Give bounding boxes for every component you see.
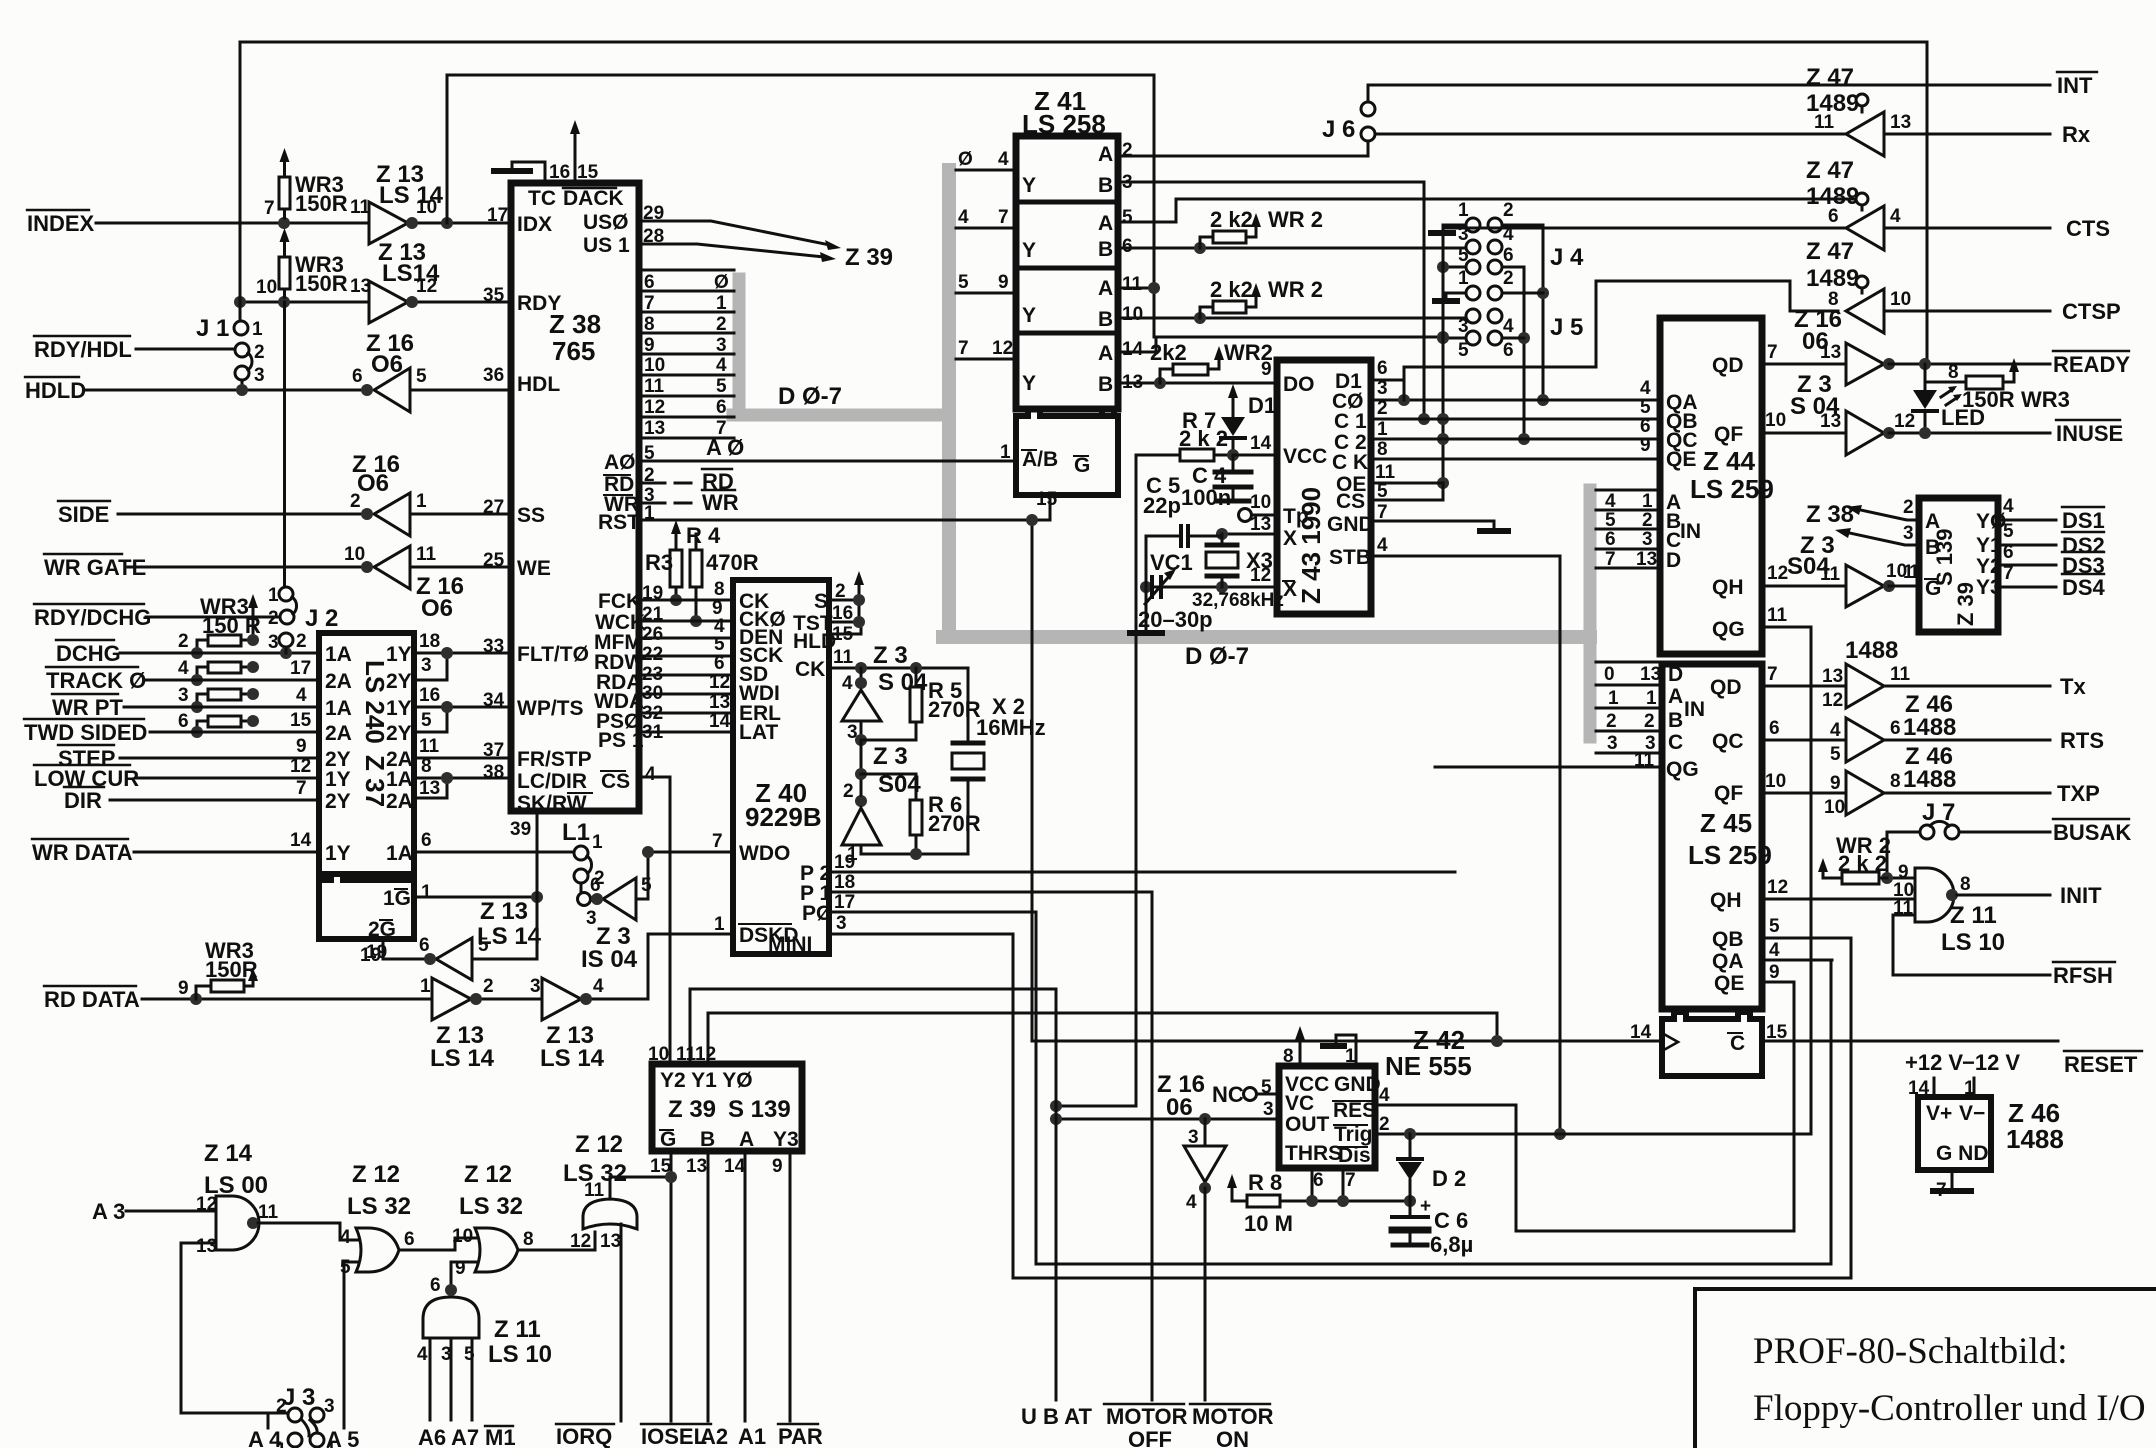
Z44 input ladder [1596,490,1660,568]
IC Z45 LS259 body [1662,664,1762,1009]
svg-text:RST: RST [598,511,640,534]
buffer Z3 S04 (DS enable) [1787,532,1835,580]
svg-text:Z 14: Z 14 [204,1140,253,1167]
svg-text:GND: GND [1327,513,1374,536]
svg-text:OUT: OUT [1285,1113,1330,1136]
jumper J3 circles [282,1384,315,1411]
svg-text:B: B [700,1128,715,1151]
label Z39 (US destination) [845,244,893,271]
svg-text:A: A [1668,685,1683,708]
ground at J5-1 [1446,293,1466,298]
svg-text:A 3: A 3 [92,1199,125,1224]
svg-text:1: 1 [1377,419,1388,440]
svg-text:IOSEL: IOSEL [641,1424,707,1448]
svg-text:Ø: Ø [714,272,729,293]
svg-text:12: 12 [1767,563,1788,584]
svg-text:15: 15 [290,710,312,731]
svg-text:Floppy-Controller und I/O: Floppy-Controller und I/O [1753,1388,2146,1429]
svg-text:765: 765 [552,336,595,366]
svg-text:1: 1 [1458,200,1469,221]
svg-text:LC/DIR: LC/DIR [517,770,587,793]
data ladder rows at Z38 [639,270,734,438]
buffer Z47 1489 (Rx) [1806,64,1859,117]
wire J5-6 to J4-6 rail [1502,337,1524,340]
wire gate1 out to gate2 [399,1238,477,1250]
trimmer VC1 [1152,577,1161,597]
net label TWD SIDED [24,711,189,745]
IC Z37 LS240 body [319,633,414,874]
labels Z3 S04 (READY/INUSE pair) [1790,371,1840,420]
svg-text:4: 4 [593,976,604,997]
net label TRACK 0 [46,658,189,693]
svg-text:7: 7 [264,198,275,219]
svg-text:10: 10 [1824,797,1845,818]
ground at J4-1 [1443,225,1466,230]
svg-text:2: 2 [1642,510,1653,531]
svg-text:LS 14: LS 14 [379,182,444,209]
wire Z45 QH to NAND pin 10 [1762,898,1915,901]
diode D2 [1409,1134,1412,1201]
svg-text:GND: GND [1334,1073,1381,1096]
svg-text:3: 3 [1458,316,1469,337]
IC Z45 pin numbers [1604,664,1788,1043]
wire RDY/HDL to J1-2 [136,348,235,351]
svg-text:O6: O6 [357,470,389,497]
svg-text:Z 11: Z 11 [1950,902,1997,929]
svg-text:PROF-80-Schaltbild:: PROF-80-Schaltbild: [1753,1331,2068,1372]
svg-text:6: 6 [419,935,430,956]
svg-text:4: 4 [842,673,853,694]
wire C1/QB row [1371,418,1660,421]
title block border [1695,1289,2156,1448]
svg-text:J 5: J 5 [1550,314,1583,341]
wire A3 to Z14 [126,1210,216,1213]
svg-text:4: 4 [1640,378,1651,399]
svg-text:4: 4 [1605,491,1616,512]
net label A1 [738,1424,766,1448]
IC Z44 pin numbers [1640,342,1788,626]
svg-text:3: 3 [1903,523,1914,544]
wire A2 up to Z39 B [707,1151,710,1421]
svg-text:NE 555: NE 555 [1385,1051,1472,1081]
svg-text:WR 2: WR 2 [1268,277,1323,302]
svg-text:4: 4 [296,685,307,706]
svg-text:2Y: 2Y [386,722,412,745]
svg-text:US 1: US 1 [583,234,630,257]
svg-text:1: 1 [1646,688,1657,709]
svg-text:11: 11 [419,736,440,757]
svg-text:QB: QB [1712,928,1744,951]
capacitor C5 22p [1146,534,1222,633]
svg-text:13: 13 [1822,666,1843,687]
svg-text:X3: X3 [1246,548,1273,573]
svg-text:14: 14 [290,830,312,851]
svg-text:13: 13 [644,418,665,439]
wire LOW CUR to Z37 [136,777,319,780]
wire INT [1368,85,2050,102]
svg-text:2A: 2A [325,722,352,745]
svg-text:8: 8 [1948,362,1959,383]
svg-text:Z 38: Z 38 [1806,501,1854,528]
svg-text:6: 6 [1605,529,1616,550]
svg-text:1: 1 [1964,1078,1975,1099]
Z42 VCC pin 8 arrow [1299,1040,1302,1066]
buffer Z46 1488 (TXP) [1846,771,1884,815]
wire PAR up to Z39 Y3 [789,1151,792,1421]
svg-text:10: 10 [1765,771,1786,792]
wire UBAT rail [1055,989,1058,1400]
wire Z37 2A to Z38 FR/STP [414,757,511,760]
svg-text:CTS: CTS [2066,216,2110,241]
wire gate3 out to Z39 G [610,1177,671,1199]
svg-text:11: 11 [676,1044,697,1065]
resistor WR3 150R (RDY pull-up) [279,257,290,289]
svg-text:4: 4 [716,355,727,376]
svg-text:4: 4 [1503,316,1514,337]
wire CTSP buffer to label [1884,310,2050,313]
net label CTSP [2062,299,2121,324]
wire top rail down to J1 [239,42,242,321]
wire A0 to Z41 A/B [639,460,1016,463]
wire inverter out up to WR DATA and Z40 WDO [636,852,733,899]
svg-text:RFSH: RFSH [2053,963,2113,988]
svg-text:RESET: RESET [2064,1052,2138,1077]
svg-text:6: 6 [590,875,601,896]
IC Z37 pin numbers [290,631,440,963]
IC Z37 enable sub-box [319,874,414,939]
IC Z43 pin numbers [1250,358,1396,586]
svg-text:5: 5 [958,272,969,293]
wire from top line B down to IDX [446,75,449,223]
svg-text:R3: R3 [645,550,673,575]
wire osc bottom run [861,853,968,856]
svg-text:A 4: A 4 [248,1427,282,1448]
buffer Z13 LS14 (RD DATA 2) [542,978,581,1020]
net label DCHG [56,631,189,666]
svg-text:WR2: WR2 [1224,340,1273,365]
IC Z37 label (rotated) [360,660,390,807]
svg-text:270R: 270R [928,697,981,722]
svg-text:7: 7 [1345,1170,1356,1191]
svg-text:38: 38 [483,762,504,783]
wire RDA-SD [639,674,733,677]
wire RST long run to Z45 clock [639,520,1662,1041]
svg-text:8: 8 [1283,1046,1294,1067]
net label MOTOR ON [1192,1404,1274,1448]
svg-text:FCK: FCK [598,590,641,613]
net label RD DATA [44,978,189,1012]
svg-text:7: 7 [958,338,969,359]
svg-text:A1: A1 [738,1424,766,1448]
IC Z39 right pin numbers [1903,496,2014,584]
wire RESET from Z45 C [1764,1040,2058,1043]
svg-text:39: 39 [510,819,531,840]
resistor 2k2 WR2 (DO pull-up) [1173,364,1208,375]
svg-text:A: A [1925,510,1940,533]
wire Z44 QH to DS enable [1762,585,1919,588]
IC Z44 label [1690,446,1774,504]
svg-text:11: 11 [1890,664,1911,685]
label RD (overlined) [702,469,734,494]
svg-text:4: 4 [1890,206,1901,227]
svg-text:A: A [1098,143,1113,166]
svg-text:Z 47: Z 47 [1806,64,1854,91]
resistor 2k2 WR2 (B10 pull-up) [1213,301,1246,313]
net label IORQ [556,1424,612,1448]
svg-text:C: C [1730,1032,1745,1055]
svg-text:2 k2: 2 k2 [1210,277,1253,302]
svg-text:1: 1 [1345,1046,1356,1067]
svg-text:INDEX: INDEX [27,211,95,236]
svg-text:TRACK Ø: TRACK Ø [46,668,146,693]
svg-text:C 1: C 1 [1334,410,1367,433]
svg-text:1: 1 [420,976,431,997]
svg-text:12: 12 [992,338,1013,359]
junction Y0 line into RST/C rail [1496,1013,1499,1041]
svg-text:10: 10 [1890,289,1911,310]
svg-text:Y: Y [1022,372,1036,395]
svg-text:16MHz: 16MHz [976,715,1046,740]
svg-text:READY: READY [2053,352,2130,377]
svg-text:150R: 150R [295,191,348,216]
wire Z41 B13 to Z43 DO [1118,382,1277,385]
inverter Z13 LS14 (2G) [436,938,472,980]
svg-text:2: 2 [1379,1114,1390,1135]
data bus D0-7 gray vertical main [942,170,956,637]
svg-text:Z 39: Z 39 [668,1096,716,1123]
wire INIT out [1957,894,2050,897]
svg-text:1: 1 [268,585,279,606]
IC Z39 right pin names [1925,510,2006,600]
wire Z41 A2 to J6 [1118,141,1368,156]
IC Z39 bottom S139 body [652,1064,802,1151]
wire RD stub [639,482,691,485]
net label -12V [1962,1050,2020,1075]
net label M1 [485,1425,516,1448]
wire INDEX to Z38 IDX [96,222,511,225]
svg-text:DCHG: DCHG [56,641,121,666]
wire osc node 2 to R6 [861,773,916,776]
svg-text:5: 5 [421,710,432,731]
svg-text:U B AT: U B AT [1021,1404,1092,1429]
svg-text:470R: 470R [706,550,759,575]
svg-text:C: C [1668,731,1683,754]
svg-text:6: 6 [1503,245,1514,266]
wire PS1-LAT [639,731,733,734]
jumper J6 pin2 [1361,127,1375,141]
svg-text:13: 13 [1820,411,1841,432]
svg-text:3: 3 [254,365,265,386]
wire RDY row [240,301,511,304]
svg-text:SS: SS [517,504,545,527]
resistor R6 270R [910,800,922,835]
svg-text:S 139: S 139 [728,1096,791,1123]
wire CTS rail to buffer and label [1443,227,2050,230]
net label WR DATA [32,840,133,865]
wire Z43 D1 elbow [1371,380,1404,400]
jumper J2 pin1 [279,587,293,601]
net label RESET [2064,1052,2138,1077]
svg-text:SK/RW: SK/RW [517,792,587,815]
svg-text:4: 4 [998,149,1009,170]
net label CTS [2066,216,2110,241]
svg-text:14: 14 [1250,433,1272,454]
svg-text:Z 39: Z 39 [1953,582,1978,626]
wire Z44 QG chain down to Trig [1762,627,1811,1134]
svg-text:13: 13 [686,1156,707,1177]
svg-text:20–30p: 20–30p [1138,607,1213,632]
IC Z45 label [1688,808,1772,870]
svg-text:1A: 1A [325,643,352,666]
buffer Z46 1488 (Tx) [1845,637,1898,664]
junction RDY at J1 vertical [234,296,246,308]
svg-text:12: 12 [1894,411,1915,432]
svg-text:LS 10: LS 10 [1941,929,2005,956]
wire CK/QE row [1371,458,1660,461]
wire Z37 out to L1 [414,851,574,854]
svg-text:Y: Y [1022,304,1036,327]
wire J1-3 to HDLD [241,380,244,390]
svg-text:B: B [1925,536,1940,559]
wire bottom bus row QB [1013,938,1851,1278]
capacitor C4 100n [1232,455,1235,500]
svg-text:A: A [1098,277,1113,300]
inverter Z16 06 (HDLD) [374,368,410,412]
svg-text:3: 3 [1642,529,1653,550]
wire Z43 OE stub [1371,482,1443,485]
svg-text:26: 26 [642,624,663,645]
svg-text:13: 13 [196,1236,217,1257]
svg-text:1: 1 [716,293,727,314]
svg-text:L1: L1 [562,819,590,846]
svg-text:QA: QA [1712,950,1744,973]
svg-text:Tx: Tx [2060,674,2086,699]
svg-text:9: 9 [772,1156,783,1177]
IC Z38 765 FDC body [511,183,639,811]
svg-text:Z 45: Z 45 [1700,808,1752,838]
svg-text:8: 8 [1960,874,1971,895]
svg-text:PS 1: PS 1 [598,729,644,752]
svg-text:8: 8 [714,579,725,600]
svg-text:B: B [1098,174,1113,197]
IC Z38 pin names left column [517,213,592,815]
svg-text:6: 6 [1769,718,1780,739]
svg-text:6: 6 [644,272,655,293]
wires DS1-DS4 [1998,520,2056,587]
IC Z45 clock wedge [1662,1033,1678,1051]
wires +12/-12 into Z46 [1934,1078,1974,1097]
svg-text:10 M: 10 M [1244,1211,1293,1236]
svg-text:1: 1 [416,491,427,512]
inverter Z16 06 (WR GATE) [374,546,410,589]
svg-text:NC: NC [1212,1082,1244,1107]
svg-text:B: B [1098,308,1113,331]
svg-text:USØ: USØ [583,211,629,234]
net label IOSEL [641,1424,707,1448]
svg-text:10: 10 [344,544,365,565]
net label TXP [2057,781,2100,806]
svg-text:4: 4 [1186,1192,1197,1213]
IC Z38 pin names top TC DACK [528,187,624,210]
svg-text:VC1: VC1 [1150,550,1193,575]
label Z38 with arrows to Z39 A/B [1806,501,1854,528]
svg-text:1A: 1A [386,842,413,865]
svg-text:DO: DO [1283,373,1315,396]
svg-text:D Ø-7: D Ø-7 [778,383,842,410]
svg-text:RDY/DCHG: RDY/DCHG [34,605,151,630]
crystal X2 16MHz [967,668,970,854]
svg-text:Z 47: Z 47 [1806,157,1854,184]
wire RDW-SCK [639,655,733,658]
svg-text:QF: QF [1714,423,1743,446]
svg-text:B: B [1668,709,1683,732]
wire DCHG to Z37 [120,652,319,655]
svg-text:IDX: IDX [517,213,552,236]
svg-text:A7: A7 [451,1425,479,1448]
wire Y1 from Z39 top [690,989,1056,1064]
wire Z42 RES to Z45 QE [1375,982,1794,1231]
net label PAR [778,1424,823,1448]
buffer Z13 LS14 (RDY) [369,281,408,323]
wire IORQ up to gate3 [620,1224,623,1421]
svg-text:1: 1 [714,914,725,935]
svg-text:1: 1 [1642,491,1653,512]
IC Z46 power box body [1918,1097,1991,1170]
svg-text:4: 4 [645,764,656,785]
svg-text:14: 14 [724,1156,746,1177]
svg-text:V−: V− [1959,1102,1985,1125]
IC Z41 label [1022,86,1106,139]
wire Z37 1Y to Z38 WP/TS [414,706,511,709]
wire J5-2 to J4-2 rail [1502,292,1543,295]
svg-text:4: 4 [178,658,189,679]
svg-text:13: 13 [1820,342,1841,363]
svg-text:11: 11 [1814,112,1835,133]
svg-text:06: 06 [1166,1094,1193,1121]
svg-text:9229B: 9229B [745,802,822,832]
CTS rail vertical [1442,228,1445,500]
svg-text:D: D [1666,549,1681,572]
wire Z40 MINI long run down [829,934,1013,1278]
svg-text:1: 1 [847,844,858,865]
svg-text:18: 18 [834,872,855,893]
svg-text:4: 4 [1830,720,1841,741]
svg-text:150R: 150R [295,271,348,296]
svg-text:HDL: HDL [517,373,560,396]
net label STEP [58,746,115,771]
buffer Z16 06 (READY) [1794,306,1842,355]
wire Z45 QD to Tx [1762,685,2050,688]
data ladder bit numbers [714,272,729,439]
resistor WR3 150R (INDEX pull-up) [279,177,290,209]
svg-text:LS 258: LS 258 [1022,109,1106,139]
jumper J2 pin3 [279,633,293,647]
wire Z37 2G to inverter [383,939,426,959]
diode D1 with pull-up [1232,398,1235,455]
svg-text:A2: A2 [700,1424,728,1448]
svg-text:QH: QH [1710,889,1742,912]
gate Z12 LS32 OR 2 [459,1161,523,1220]
svg-text:13: 13 [1640,664,1661,685]
wire Z42 OUT row [1056,1118,1279,1121]
svg-text:13: 13 [419,778,440,799]
svg-text:36: 36 [483,365,504,386]
wire Z40 P1 long run [829,891,1152,894]
net label Tx [2060,674,2086,699]
buffer Z47 1489 (CTSP) [1806,238,1859,292]
resistor 150R (TRACK0) [208,662,241,673]
wire top rail B [447,75,1154,337]
